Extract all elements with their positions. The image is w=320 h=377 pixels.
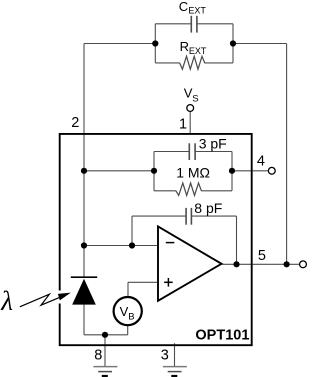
svg-text:R: R — [180, 39, 189, 54]
terminal pin5 circle — [300, 261, 307, 268]
node pin2/feedback — [81, 168, 87, 174]
wire VB top stub — [127, 282, 129, 297]
wire 8pF branch left — [132, 215, 186, 217]
svg-text:λ: λ — [0, 286, 13, 316]
wire feedback loop bottom branch left — [154, 190, 176, 192]
wire RC junction to far right — [233, 43, 287, 45]
svg-text:2: 2 — [71, 115, 79, 131]
wire inverting input — [84, 245, 158, 247]
node feedback right — [229, 168, 235, 174]
wire resistor branch left — [155, 62, 180, 64]
wire photodiode anode — [83, 305, 85, 335]
wire right vertical of external RC — [232, 24, 234, 63]
IC box OPT101 outline with gap for light arrow — [60, 134, 252, 345]
wire op-amp output to pin5 — [222, 263, 300, 265]
photodiode cathode bar — [71, 276, 97, 278]
resistor 1M zigzag — [176, 183, 202, 195]
wire top capacitor branch left — [155, 23, 191, 25]
wire feedback loop right vertical — [231, 152, 233, 191]
svg-text:4: 4 — [257, 154, 265, 170]
wire 8pF left vertical — [131, 216, 133, 245]
svg-text:EXT: EXT — [188, 6, 206, 16]
wire resistor branch right — [205, 62, 233, 64]
node RC right — [230, 40, 236, 46]
node pin8 — [102, 332, 108, 338]
ground pin8 — [93, 367, 117, 377]
wire feedback node to pin4 — [232, 170, 268, 172]
capacitor 3pF plates — [189, 143, 195, 160]
wire noninverting input — [128, 281, 158, 283]
voltage source VB circle — [114, 297, 142, 325]
wire bottom node horizontal — [84, 334, 128, 336]
node output/8pF — [233, 261, 239, 267]
wire pin2 vertical — [83, 44, 85, 278]
wire feedback loop left vertical — [153, 152, 155, 191]
wire 8pF branch right — [191, 215, 236, 217]
wire 8pF right vertical — [236, 216, 238, 264]
svg-text:3: 3 — [161, 347, 169, 363]
node inverting/pin2 — [81, 242, 87, 248]
op-amp plus sign — [164, 281, 173, 283]
svg-text:1 MΩ: 1 MΩ — [176, 165, 210, 181]
photodiode D1 triangle — [72, 279, 96, 305]
terminal VS circle — [187, 105, 194, 112]
wire feedback loop top branch — [154, 151, 189, 153]
svg-text:B: B — [128, 312, 134, 323]
wire far right vertical down to pin5 — [286, 44, 288, 265]
svg-text:8 pF: 8 pF — [194, 200, 222, 216]
wire pin8 vertical — [104, 335, 106, 367]
svg-text:5: 5 — [258, 248, 266, 264]
node feedback left — [151, 168, 157, 174]
node RC left — [152, 40, 158, 46]
wire node to feedback loop — [84, 170, 154, 172]
wire left vertical of external RC — [154, 24, 156, 63]
wire pin2 top horizontal — [84, 43, 155, 45]
svg-text:3 pF: 3 pF — [199, 135, 227, 151]
terminal pin4 circle — [268, 167, 275, 174]
node output/external — [284, 261, 290, 267]
resistor REXT zigzag — [180, 56, 205, 69]
wire feedback loop bottom branch right — [201, 190, 232, 192]
node inverting/8pF — [129, 242, 135, 248]
wire top capacitor branch right — [197, 23, 233, 25]
ground pin3 — [163, 367, 187, 377]
capacitor CEXT plates — [191, 16, 197, 33]
wire VB bottom stub — [127, 325, 129, 335]
svg-text:1: 1 — [179, 116, 187, 132]
svg-text:V: V — [120, 304, 129, 319]
svg-text:S: S — [192, 93, 198, 104]
svg-text:OPT101: OPT101 — [195, 328, 249, 344]
light arrow head — [58, 293, 71, 301]
op-amp minus sign — [166, 242, 175, 244]
svg-text:8: 8 — [94, 347, 102, 363]
capacitor 8pF plates — [186, 208, 191, 225]
wire VS stub — [189, 111, 191, 134]
op-amp U1 triangle — [158, 226, 222, 300]
svg-text:EXT: EXT — [189, 46, 207, 56]
svg-text:C: C — [179, 0, 188, 14]
wire pin3 vertical — [174, 343, 176, 366]
light arrow zigzag — [20, 294, 62, 307]
